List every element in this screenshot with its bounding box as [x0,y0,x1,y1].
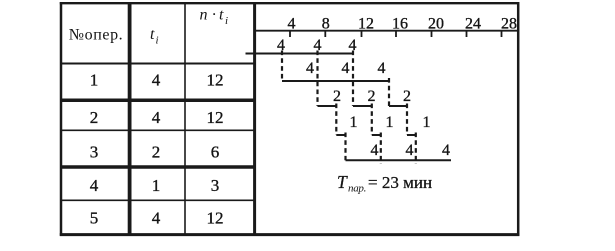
table row1 bottom thick line [60,99,256,103]
svg-text:12: 12 [207,71,224,90]
svg-text:4: 4 [371,142,379,159]
svg-text:4: 4 [288,16,296,33]
table column divider thick (between No and t_i) [128,3,132,235]
svg-text:4: 4 [342,60,350,77]
row 5: 5 4 12 [90,209,224,228]
axis scale labels [288,16,518,33]
operation 3 bar segments [318,105,408,107]
svg-text:20: 20 [428,16,444,33]
table row2 bottom thin line [60,129,256,131]
table header cell: n * t_i [200,7,229,28]
svg-text:T: T [337,172,348,192]
svg-text:3: 3 [211,176,220,195]
svg-text:4: 4 [90,176,99,195]
svg-text:28: 28 [501,16,517,33]
svg-text:1: 1 [423,114,431,131]
axis tick marks [290,31,502,37]
op1 segment duration labels 4 4 4 [277,37,357,54]
op2 segment duration labels 4 4 4 [306,60,386,77]
row 3: 3 2 6 [90,143,220,162]
svg-text:5: 5 [90,209,99,228]
svg-text:16: 16 [392,16,408,33]
svg-text:4: 4 [152,209,161,228]
table right border [253,3,256,235]
svg-text:4: 4 [406,142,414,159]
dashed drops op4-op5 [346,133,416,165]
svg-text:n: n [200,7,208,24]
svg-text:·: · [212,7,217,24]
row 4: 4 1 3 [90,176,220,195]
svg-text:12: 12 [207,108,224,127]
svg-text:i: i [225,15,228,27]
table column divider thin (between t_i and n*t_i) [184,3,186,235]
table header bottom line [60,63,256,65]
svg-text:t: t [150,26,155,43]
svg-text:6: 6 [211,143,220,162]
svg-text:2: 2 [333,88,341,105]
svg-text:4: 4 [378,60,386,77]
operation 2 bar [282,80,389,82]
svg-text:2: 2 [90,108,99,127]
svg-text:№опер.: №опер. [69,27,124,44]
svg-text:2: 2 [368,88,376,105]
svg-text:1: 1 [90,71,99,90]
svg-text:1: 1 [386,114,394,131]
row 2: 2 4 12 [90,108,224,127]
svg-text:4: 4 [306,60,314,77]
svg-text:8: 8 [322,16,330,33]
svg-text:t: t [219,7,224,24]
operation 4 bar segments [336,134,416,136]
svg-text:4: 4 [277,37,285,54]
svg-text:4: 4 [314,37,322,54]
svg-text:1: 1 [152,176,161,195]
operation 5 bar [346,159,452,161]
svg-text:1: 1 [350,114,358,131]
svg-text:i: i [156,35,159,47]
svg-text:24: 24 [465,16,481,33]
table data rows [90,71,224,228]
figure outer frame [60,2,520,236]
T par = 23 min formula [337,172,432,195]
svg-text:пар.: пар. [348,183,366,195]
op3 segment duration labels 2 2 2 [333,88,411,105]
op5 segment duration labels 4 4 4 [371,142,451,159]
table row4 bottom thin line [60,199,256,201]
dashed transfer line op2-op3 [388,78,390,106]
op4 segment duration labels 1 1 1 [350,114,431,131]
svg-text:= 23 мин: = 23 мин [368,173,432,192]
svg-text:2: 2 [403,88,411,105]
dashed drops op3-op4 [336,104,407,136]
svg-text:2: 2 [152,143,161,162]
svg-text:4: 4 [152,71,161,90]
dashed transfer lines op1-op2 [282,51,353,107]
time axis line [255,30,518,32]
row 1: 1 4 12 [90,71,224,90]
svg-text:12: 12 [358,16,374,33]
table header cell: t_i [150,26,159,47]
svg-text:12: 12 [207,209,224,228]
svg-text:4: 4 [349,37,357,54]
table row3 bottom thick line [60,165,256,169]
operation 1 bar [246,53,354,55]
svg-text:4: 4 [152,108,161,127]
svg-text:3: 3 [90,143,99,162]
svg-text:4: 4 [442,142,450,159]
